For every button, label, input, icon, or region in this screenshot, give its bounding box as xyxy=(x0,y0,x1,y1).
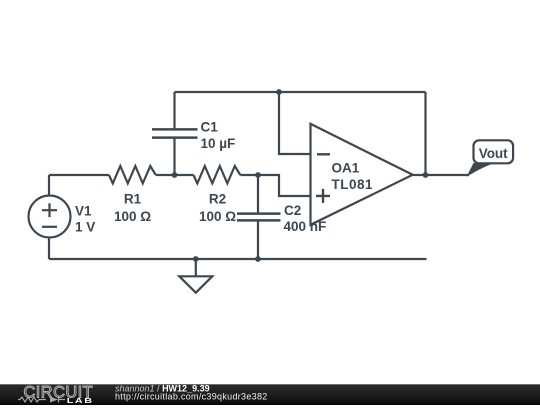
svg-text:TL081: TL081 xyxy=(332,177,374,192)
svg-text:C1: C1 xyxy=(201,120,219,135)
svg-text:R2: R2 xyxy=(209,192,226,207)
svg-text:OA1: OA1 xyxy=(332,160,360,175)
svg-text:1 V: 1 V xyxy=(75,220,95,235)
svg-text:LAB: LAB xyxy=(67,397,94,405)
svg-text:V1: V1 xyxy=(75,203,92,218)
svg-text:Vout: Vout xyxy=(479,146,508,161)
svg-text:10 µF: 10 µF xyxy=(201,136,236,151)
svg-text:100 Ω: 100 Ω xyxy=(199,209,236,224)
svg-text:R1: R1 xyxy=(124,192,142,207)
svg-text:400 nF: 400 nF xyxy=(284,219,327,234)
svg-text:C2: C2 xyxy=(284,203,301,218)
svg-text:http://circuitlab.com/c39qkudr: http://circuitlab.com/c39qkudr3e382 xyxy=(115,392,268,402)
svg-text:100 Ω: 100 Ω xyxy=(114,209,151,224)
